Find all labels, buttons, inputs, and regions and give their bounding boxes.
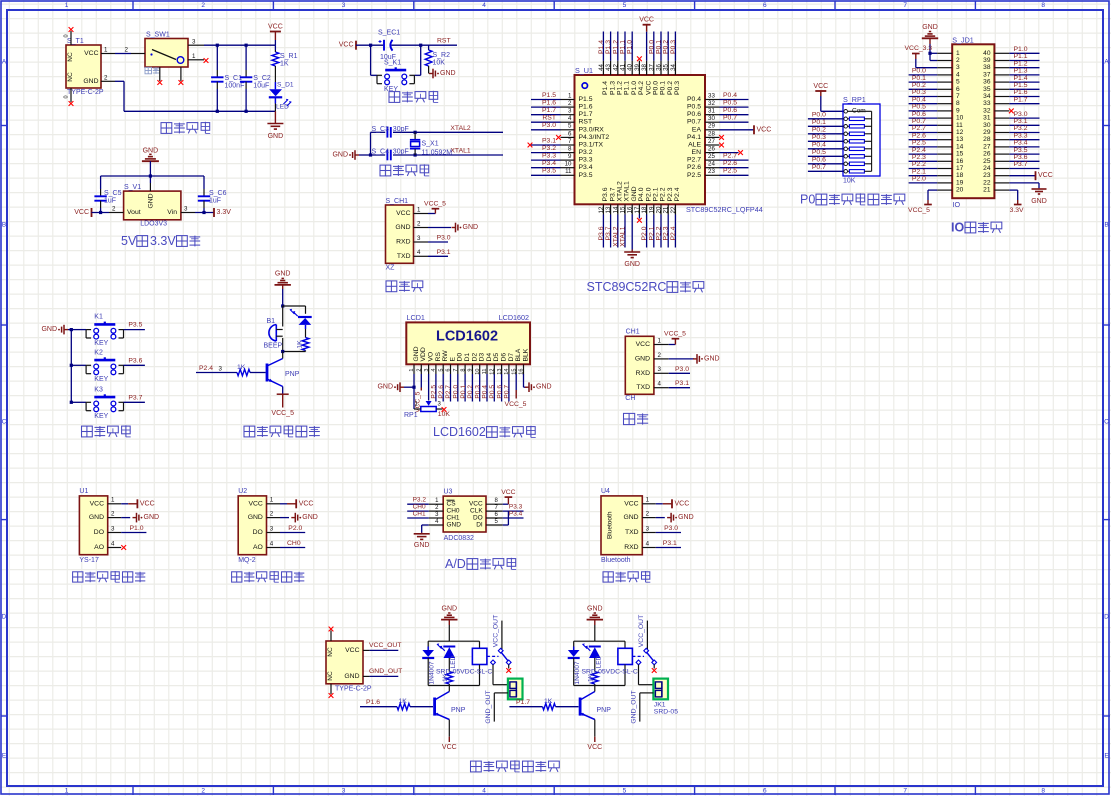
svg-text:DO: DO (473, 515, 483, 522)
LED S_D1 (269, 82, 294, 112)
wire P0.2 to RP1 (808, 127, 844, 134)
svg-text:34: 34 (670, 63, 677, 70)
svg-text:25: 25 (708, 153, 715, 160)
caption 4 (603, 571, 650, 582)
svg-text:31: 31 (983, 115, 991, 122)
svg-text:P1.3: P1.3 (605, 40, 612, 54)
port VCC_5 serial (664, 331, 686, 345)
wire P0.1 to RP1 (808, 119, 844, 126)
svg-text:P2.2: P2.2 (912, 161, 926, 168)
U1 pin 7 P3.1/TX (528, 137, 575, 147)
svg-text:S_C2: S_C2 (253, 75, 271, 82)
svg-text:P3.6: P3.6 (598, 226, 605, 240)
ground alarm top (275, 271, 291, 306)
svg-text:VO: VO (428, 352, 435, 362)
svg-text:2: 2 (956, 57, 960, 64)
U1 pin 33 P0.4 (705, 92, 749, 100)
svg-text:3: 3 (417, 235, 421, 242)
svg-text:2: 2 (568, 100, 572, 107)
svg-text:1N4007: 1N4007 (428, 661, 435, 684)
U1 pin 18 P2.0 (641, 204, 648, 247)
svg-text:CH0: CH0 (287, 540, 301, 547)
svg-text:1: 1 (956, 50, 960, 57)
svg-text:17: 17 (634, 206, 641, 213)
svg-text:NC: NC (67, 52, 74, 62)
svg-text:16: 16 (519, 369, 525, 375)
transistor PNP relay (580, 686, 611, 720)
wire P2.6 to JD1 pin 13 (909, 132, 938, 139)
U1 pin 6 P4.3/INT2 (556, 130, 574, 140)
svg-text:GND: GND (144, 514, 160, 521)
svg-text:GND: GND (536, 384, 552, 391)
svg-text:RW: RW (442, 350, 449, 362)
resistor 1K alarm (281, 338, 309, 354)
svg-text:36: 36 (656, 63, 663, 70)
svg-text:3: 3 (956, 64, 960, 71)
svg-text:P0.4: P0.4 (723, 92, 737, 99)
wire GND_OUT from N1 (363, 668, 402, 676)
capacitor S_C6 1uF (198, 187, 227, 213)
svg-text:P0.2: P0.2 (812, 127, 826, 134)
wire GND_OUT relay (631, 690, 654, 723)
module U1 YS-17 (79, 488, 121, 564)
U1 pin 1 P1.5 (531, 92, 575, 100)
wire relay rails (574, 641, 625, 685)
svg-text:10K: 10K (438, 411, 451, 418)
svg-text:VCC: VCC (1038, 172, 1053, 179)
svg-text:EN: EN (692, 149, 702, 156)
wire P3.2 to ADC CS (407, 497, 429, 505)
svg-text:BLK: BLK (522, 348, 529, 361)
svg-text:GND: GND (41, 326, 57, 333)
label JK1 SRD-05 (654, 701, 678, 715)
no-connect JD1 pin32 (1009, 109, 1014, 114)
svg-text:AO: AO (94, 544, 104, 551)
port 3.3V right (195, 208, 231, 217)
caption sheng-guang-bao-jing (244, 425, 320, 437)
ground relay top (587, 605, 603, 641)
wire P2.7 to JD1 pin 12 (909, 125, 938, 132)
wire T1 GND to bottom rail (115, 81, 124, 111)
U1 pin 39 P4.2 (634, 56, 642, 75)
ground relay top (441, 605, 457, 641)
svg-text:GND: GND (413, 346, 420, 361)
svg-text:P1.2: P1.2 (612, 40, 619, 54)
svg-text:TYPE-C-2P: TYPE-C-2P (335, 685, 372, 692)
ground port U4 (656, 513, 694, 523)
svg-text:S_C4: S_C4 (372, 149, 390, 156)
svg-text:GND: GND (631, 186, 638, 201)
svg-text:S_SW1: S_SW1 (146, 32, 170, 39)
svg-text:GND: GND (442, 605, 458, 612)
svg-text:P1.6: P1.6 (579, 104, 593, 111)
svg-text:P0.6: P0.6 (912, 111, 926, 118)
wire P2.1 to JD1 pin 18 (909, 168, 938, 175)
svg-text:P4.3/INT2: P4.3/INT2 (579, 134, 610, 141)
svg-text:YS-17: YS-17 (79, 557, 99, 564)
svg-text:28: 28 (983, 136, 991, 143)
caption chuan-kou (624, 413, 649, 424)
svg-text:PNP: PNP (285, 371, 300, 378)
wire P3.4 from ADC DO (503, 511, 524, 519)
svg-text:LCD1602: LCD1602 (436, 329, 498, 345)
svg-text:P3.4: P3.4 (579, 164, 593, 171)
wire P1.0 from JD1 pin 40 (1009, 46, 1039, 53)
svg-text:GND_OUT: GND_OUT (631, 690, 638, 723)
svg-text:S_JD1: S_JD1 (952, 35, 974, 44)
svg-text:14: 14 (504, 368, 510, 374)
svg-text:P3.7: P3.7 (1014, 161, 1028, 168)
svg-text:6: 6 (763, 2, 767, 9)
svg-text:7: 7 (903, 787, 907, 794)
svg-text:S_C5: S_C5 (104, 190, 122, 197)
svg-text:P0.0: P0.0 (453, 385, 460, 399)
svg-text:S_C6: S_C6 (209, 190, 227, 197)
svg-text:100nF: 100nF (225, 82, 245, 89)
no-connect marks SW1 (157, 58, 208, 85)
U1 pin 2 P1.6 (531, 99, 575, 107)
svg-text:STC89C52RC_LQFP44: STC89C52RC_LQFP44 (686, 205, 763, 214)
svg-text:P2.0: P2.0 (288, 525, 302, 532)
svg-text:VCC: VCC (339, 42, 354, 49)
svg-text:GND: GND (704, 355, 720, 362)
caption 6 (73, 571, 146, 582)
svg-text:3: 3 (342, 2, 346, 9)
wire LCD D0 net P0.0 (453, 374, 460, 402)
svg-text:29: 29 (983, 129, 991, 136)
svg-text:P1.6: P1.6 (1014, 89, 1028, 96)
svg-text:2: 2 (417, 369, 423, 372)
svg-text:P2.7: P2.7 (687, 157, 701, 164)
port VCC U2 (280, 499, 313, 508)
module U4 Bluetooth (601, 488, 656, 564)
svg-text:8: 8 (956, 100, 960, 107)
wire P3.1 download (428, 249, 451, 256)
svg-text:GND: GND (377, 384, 393, 391)
svg-text:TYPE-C-2P: TYPE-C-2P (67, 89, 104, 96)
svg-text:VCC: VCC (636, 341, 650, 348)
svg-text:P1.0: P1.0 (130, 525, 144, 532)
svg-text:SRD-05VDC-SL-C: SRD-05VDC-SL-C (582, 668, 638, 675)
svg-text:43: 43 (605, 63, 612, 70)
caption P0 pullup (800, 193, 905, 207)
svg-text:40: 40 (627, 63, 634, 70)
svg-text:1: 1 (65, 2, 69, 9)
wire XTAL1 (414, 148, 504, 157)
LED alarm (290, 309, 312, 338)
U1 pin 28 P4.1 (705, 130, 724, 140)
wire P3.1 from JD1 pin 30 (1009, 118, 1039, 125)
wire P2.0 to JD1 pin 19 (909, 176, 938, 183)
svg-text:0: 0 (64, 34, 70, 37)
wire LCD D7 net P0.7 (504, 374, 511, 402)
svg-text:LCD1: LCD1 (407, 313, 425, 322)
svg-text:4: 4 (956, 71, 960, 78)
wire LCD BLK to ground (524, 374, 552, 392)
svg-text:GND: GND (440, 70, 456, 77)
svg-text:P4.2: P4.2 (638, 81, 645, 95)
svg-text:S_V1: S_V1 (124, 184, 141, 191)
wire P3.5 from JD1 pin 26 (1009, 147, 1039, 154)
wire P3.0 from U4 pin3 (656, 525, 681, 533)
connector S_CH1 XZ download (386, 198, 429, 272)
wire LCD D6 net P0.6 (496, 374, 503, 402)
wire P2.0 from U2 pin3 (280, 525, 305, 533)
port VCC JD1 pin23 (1009, 171, 1052, 180)
svg-text:20: 20 (656, 206, 663, 213)
svg-text:XTAL1: XTAL1 (620, 226, 627, 246)
wire ADC DI tie (503, 511, 509, 525)
svg-text:TXD: TXD (636, 384, 650, 391)
svg-text:TXD: TXD (625, 529, 639, 536)
svg-text:2: 2 (201, 2, 205, 9)
U1 pin 5 P3.0/RX (531, 122, 575, 130)
svg-text:U3: U3 (444, 489, 453, 496)
svg-text:VCC: VCC (624, 500, 638, 507)
svg-text:P3.1: P3.1 (663, 540, 677, 547)
svg-text:GND: GND (414, 542, 430, 549)
svg-text:P0.3: P0.3 (670, 40, 677, 54)
svg-text:P2.6: P2.6 (912, 132, 926, 139)
wire LCD pin2 VCC_5 (415, 374, 422, 413)
svg-text:29: 29 (708, 123, 715, 130)
wire bottom power rail (124, 110, 275, 113)
U1 pin 12 P3.6 (598, 204, 605, 247)
svg-text:ALE: ALE (688, 142, 701, 149)
wire keys bus (70, 328, 73, 404)
svg-text:36: 36 (983, 79, 991, 86)
svg-text:5V: 5V (121, 234, 137, 248)
svg-text:26: 26 (708, 146, 715, 153)
svg-text:1: 1 (104, 47, 108, 54)
svg-text:MQ-2: MQ-2 (238, 557, 256, 564)
U1 pin 10 P3.4 (531, 160, 575, 168)
button K1 KEY (71, 314, 123, 347)
svg-text:P2.4: P2.4 (912, 147, 926, 154)
svg-text:16: 16 (956, 158, 964, 165)
diode 1N4007 (568, 641, 581, 685)
svg-text:P1.7: P1.7 (579, 111, 593, 118)
svg-text:7: 7 (568, 138, 572, 145)
svg-text:2: 2 (104, 75, 108, 82)
svg-text:PNP: PNP (597, 707, 612, 714)
U1 pin 34 P0.3 (670, 32, 677, 76)
U1 pin 27 ALE (705, 138, 724, 148)
svg-text:VCC: VCC (813, 83, 828, 90)
svg-text:9: 9 (468, 369, 474, 372)
svg-text:P0.6: P0.6 (812, 157, 826, 164)
svg-text:3: 3 (646, 525, 650, 532)
svg-text:VCC_5: VCC_5 (424, 201, 446, 208)
svg-text:VCC: VCC (345, 647, 359, 654)
connector CH1 serial (625, 329, 668, 403)
svg-text:K3: K3 (94, 386, 103, 393)
svg-text:12: 12 (490, 369, 496, 375)
svg-text:35: 35 (983, 86, 991, 93)
svg-text:1: 1 (409, 369, 415, 372)
svg-text:P1.4: P1.4 (602, 81, 609, 95)
svg-text:11: 11 (482, 369, 488, 375)
svg-text:GND: GND (463, 224, 479, 231)
svg-text:1: 1 (646, 497, 650, 504)
svg-text:38: 38 (641, 63, 648, 70)
svg-text:VCC_OUT: VCC_OUT (369, 642, 401, 649)
svg-text:P3.2: P3.2 (1014, 125, 1028, 132)
svg-text:33: 33 (708, 92, 715, 99)
svg-text:P1.4: P1.4 (1014, 75, 1028, 82)
svg-text:3.3V: 3.3V (1010, 207, 1024, 214)
ADC U3 ADC0832 body (429, 489, 503, 543)
svg-text:LCD1602: LCD1602 (433, 425, 486, 439)
svg-text:Com: Com (852, 108, 866, 115)
svg-text:30: 30 (983, 122, 991, 129)
svg-text:D: D (1104, 614, 1109, 621)
wire P3.7 from K3 (124, 394, 145, 402)
svg-text:4: 4 (417, 249, 421, 256)
svg-text:P0.6: P0.6 (496, 385, 503, 399)
svg-text:P1.7: P1.7 (1014, 96, 1028, 103)
svg-text:P2.6: P2.6 (723, 160, 737, 167)
svg-text:P2.5: P2.5 (687, 172, 701, 179)
U1 pin 15 XTAL1 (620, 204, 627, 247)
svg-text:22: 22 (670, 206, 677, 213)
svg-text:RST: RST (579, 119, 593, 126)
U1 right pin names (687, 96, 701, 179)
transistor PNP alarm (267, 352, 300, 387)
wire P1.1 from JD1 pin 39 (1009, 53, 1039, 60)
svg-text:P0.0: P0.0 (648, 40, 655, 54)
wire P1.6 to base (360, 698, 407, 707)
svg-text:P0.5: P0.5 (812, 149, 826, 156)
svg-text:P2.4: P2.4 (199, 365, 213, 372)
svg-text:P3.7: P3.7 (609, 187, 616, 201)
svg-text:GND: GND (1031, 198, 1047, 205)
svg-text:15: 15 (956, 151, 964, 158)
svg-text:VCC_5: VCC_5 (664, 331, 686, 338)
svg-text:P1.5: P1.5 (542, 92, 556, 99)
svg-text:VCC: VCC (268, 24, 283, 31)
svg-text:P3.0/RX: P3.0/RX (579, 126, 605, 133)
svg-text:TXD: TXD (397, 253, 411, 260)
svg-text:P3.4: P3.4 (509, 511, 523, 518)
svg-text:GND: GND (147, 193, 154, 208)
svg-text:P0.4: P0.4 (812, 142, 826, 149)
port VCC_5 download (424, 201, 446, 214)
port VCC U1 (121, 499, 154, 508)
svg-text:S_K1: S_K1 (384, 60, 401, 67)
svg-text:GND_OUT: GND_OUT (485, 690, 492, 723)
svg-text:C: C (1104, 419, 1109, 426)
wire LCD BLA VCC_5 (505, 374, 527, 408)
capacitor S_EC1 10uF polarized (378, 30, 400, 62)
svg-text:2: 2 (417, 220, 421, 227)
caption dian-yuan-dian-lu (161, 122, 210, 134)
svg-text:P0.0: P0.0 (653, 81, 660, 95)
svg-text:2: 2 (658, 352, 662, 359)
svg-text:P3.0: P3.0 (1014, 111, 1028, 118)
svg-text:P0.4: P0.4 (482, 385, 489, 399)
svg-text:S_U1: S_U1 (575, 66, 593, 75)
svg-text:13: 13 (605, 206, 612, 213)
wire P2.4 to JD1 pin 15 (909, 147, 938, 154)
wire P0.6 to RP1 (808, 157, 844, 164)
svg-text:B1: B1 (267, 318, 276, 325)
svg-text:4: 4 (482, 2, 486, 9)
svg-text:2: 2 (646, 511, 650, 518)
svg-text:39: 39 (983, 57, 991, 64)
svg-text:8: 8 (568, 146, 572, 153)
wire 5V33 top (101, 174, 204, 187)
svg-text:D5: D5 (493, 353, 500, 362)
svg-text:16: 16 (627, 206, 634, 213)
svg-text:GND_OUT: GND_OUT (369, 668, 402, 675)
svg-text:9: 9 (568, 153, 572, 160)
svg-text:13: 13 (497, 369, 503, 375)
svg-text:XTAL2: XTAL2 (612, 226, 619, 246)
svg-text:15: 15 (511, 369, 517, 375)
svg-text:30pF: 30pF (393, 126, 409, 133)
wire LCD E net P2.7 (445, 374, 452, 402)
svg-text:KEY: KEY (94, 376, 108, 383)
ground power circuit (267, 111, 283, 140)
svg-text:GND: GND (83, 78, 98, 85)
wire P0.3 to RP1 (808, 134, 844, 141)
connector S_T1 TYPE-C-2P (64, 31, 116, 102)
U1 pin 25 P2.7 (705, 152, 749, 160)
svg-text:22: 22 (983, 179, 991, 186)
svg-text:P1.1: P1.1 (1014, 53, 1028, 60)
svg-text:GND: GND (623, 514, 638, 521)
svg-text:P2.6: P2.6 (438, 385, 445, 399)
port VCC U4 (656, 499, 689, 508)
wire P2.5 to JD1 pin 14 (909, 140, 938, 147)
svg-text:P0.2: P0.2 (667, 81, 674, 95)
ground 5V33 block (142, 147, 159, 176)
svg-text:37: 37 (648, 63, 655, 70)
wire CH0 to ADC (407, 504, 429, 512)
U1 pin 17 P4.0 (634, 204, 642, 222)
svg-text:P3.1/TX: P3.1/TX (579, 142, 604, 149)
svg-text:S_CH1: S_CH1 (386, 198, 409, 205)
wire LCD D1 net P0.1 (460, 374, 467, 402)
wire+ground download GND (428, 223, 478, 233)
svg-text:1N4007: 1N4007 (574, 661, 581, 684)
svg-text:P0.3: P0.3 (912, 89, 926, 96)
svg-text:P3.3: P3.3 (542, 152, 556, 159)
wire crystal left vertical (369, 132, 372, 156)
svg-text:24: 24 (983, 165, 991, 172)
caption relay control circuit (471, 760, 560, 772)
svg-text:10: 10 (475, 369, 481, 375)
svg-text:P1.5: P1.5 (579, 96, 593, 103)
U1 pin 29 EA (705, 123, 771, 135)
button K2 KEY (71, 349, 123, 382)
svg-text:P2.7: P2.7 (445, 385, 452, 399)
svg-text:P3.5: P3.5 (542, 168, 556, 175)
LED relay (437, 643, 457, 671)
svg-text:P3.1: P3.1 (675, 380, 689, 387)
svg-text:3.3V: 3.3V (150, 234, 176, 248)
svg-text:2: 2 (201, 787, 205, 794)
U1 pin 23 P2.5 (705, 168, 749, 176)
caption A/D conversion (445, 557, 516, 571)
svg-text:RS: RS (435, 352, 442, 362)
svg-text:P2.6: P2.6 (687, 164, 701, 171)
svg-text:IO: IO (953, 200, 961, 209)
U1 bottom pin names (602, 181, 681, 201)
svg-text:U1: U1 (79, 488, 88, 495)
svg-text:3: 3 (424, 369, 430, 372)
